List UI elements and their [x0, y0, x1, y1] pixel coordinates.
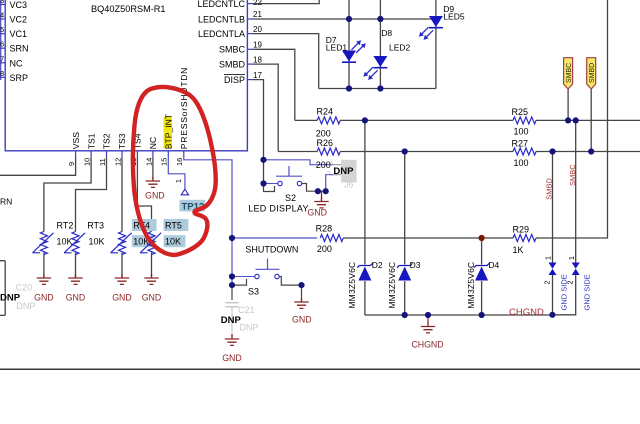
- TVS diode pair GND SIDE 2: [568, 256, 592, 311]
- ground GND at pin14: [145, 177, 165, 201]
- svg-text:SMBD: SMBD: [544, 178, 553, 200]
- power flag SMBD: [587, 58, 596, 89]
- capacitor C21 DNP grayed: [221, 285, 259, 334]
- LED D8: [363, 28, 410, 80]
- svg-text:200: 200: [316, 128, 331, 138]
- svg-text:GND: GND: [222, 353, 242, 363]
- svg-text:NC: NC: [148, 137, 158, 149]
- ground GND under RT3: [66, 274, 86, 303]
- pin 11 TS2: [98, 133, 112, 166]
- power flag SMBC: [564, 58, 573, 89]
- pin 7 NC: [0, 54, 23, 68]
- svg-text:DNP: DNP: [16, 301, 35, 311]
- wire pin12 TS3 to RT4: [121, 157, 123, 231]
- resistor R29: [513, 225, 537, 256]
- svg-text:J6: J6: [344, 180, 354, 190]
- wire CHGND rail: [365, 314, 553, 316]
- svg-text:RT3: RT3: [87, 221, 104, 231]
- connector J6 DNP: [327, 160, 357, 190]
- pin 12 TS3: [113, 133, 127, 166]
- resistor R26: [316, 138, 340, 170]
- frame border bottom: [0, 368, 640, 370]
- pin 5 VC1: [0, 25, 27, 39]
- pin 20 LEDCNTLA: [198, 25, 262, 39]
- svg-text:SMBD: SMBD: [219, 60, 246, 70]
- svg-text:SMBC: SMBC: [568, 164, 577, 186]
- wire D4 vertical: [481, 238, 483, 315]
- svg-text:GND SIDE: GND SIDE: [583, 274, 592, 310]
- wire RT4 to GND: [121, 253, 123, 278]
- wire LED cathode rail: [319, 88, 436, 90]
- J6 pin stubs: [333, 165, 341, 175]
- pin 21 LEDCNTLB: [198, 10, 262, 24]
- pin 6 SRN: [0, 40, 29, 54]
- svg-text:200: 200: [316, 160, 331, 170]
- pin 3 VC3: [0, 0, 27, 10]
- wire RT3 to GND: [75, 253, 77, 278]
- wire LED5 vertical: [435, 0, 437, 89]
- wire pin13 TS4 to RT5: [137, 157, 151, 231]
- svg-text:LED5: LED5: [443, 11, 465, 21]
- wire S2 right to J6 pin2: [326, 175, 333, 192]
- svg-text:1: 1: [176, 179, 183, 183]
- svg-text:20: 20: [253, 25, 262, 34]
- svg-text:LEDCNTLC: LEDCNTLC: [197, 0, 245, 9]
- ground GND under S2: [307, 191, 328, 217]
- svg-text:GND: GND: [142, 293, 162, 303]
- svg-text:VC2: VC2: [10, 15, 28, 25]
- svg-text:R27: R27: [512, 139, 529, 149]
- svg-text:VC1: VC1: [10, 29, 28, 39]
- svg-text:RT2: RT2: [57, 221, 74, 231]
- svg-text:2: 2: [327, 170, 331, 177]
- svg-text:18: 18: [253, 55, 262, 64]
- pin 9 VSS: [67, 132, 81, 166]
- svg-text:1: 1: [546, 256, 553, 260]
- svg-text:SHUTDOWN: SHUTDOWN: [245, 244, 298, 254]
- svg-text:S2: S2: [285, 193, 296, 203]
- svg-text:PRESSorSHUTDN: PRESSorSHUTDN: [179, 67, 189, 149]
- svg-text:CHGND: CHGND: [509, 307, 544, 318]
- resistor R25: [512, 107, 537, 136]
- wire RT5 to GND: [151, 253, 153, 278]
- svg-text:DNP: DNP: [221, 315, 242, 326]
- wire S2 dots link: [318, 190, 326, 192]
- thermistor RT5: [140, 219, 188, 255]
- svg-text:LED2: LED2: [389, 42, 411, 52]
- svg-text:200: 200: [317, 244, 332, 254]
- svg-text:2: 2: [544, 281, 551, 285]
- svg-text:R25: R25: [512, 107, 529, 117]
- wire pin21 LED anode row: [254, 18, 436, 20]
- wire LED1 vertical: [348, 0, 350, 89]
- IC U1 body BQ40Z50RSM-R1: [5, 0, 247, 151]
- svg-text:VSS: VSS: [71, 132, 81, 149]
- svg-text:GND: GND: [307, 208, 327, 218]
- svg-text:GND: GND: [34, 293, 54, 303]
- svg-text:C21: C21: [238, 305, 255, 315]
- resistor R28: [316, 224, 344, 255]
- pin 14 NC: [144, 137, 158, 166]
- wire LED2 vertical: [379, 0, 381, 89]
- zener diode D2: [347, 260, 383, 309]
- wire R28 left lead: [232, 237, 317, 239]
- svg-text:NC: NC: [10, 58, 23, 68]
- wire D3 vertical: [404, 152, 406, 316]
- svg-text:3: 3: [0, 0, 4, 5]
- svg-text:SMBD: SMBD: [589, 63, 596, 83]
- svg-text:SMBC: SMBC: [219, 45, 246, 55]
- svg-text:D2: D2: [372, 260, 383, 270]
- svg-text:2: 2: [568, 281, 575, 285]
- svg-text:11: 11: [98, 158, 107, 166]
- wire RT2 to GND: [43, 253, 45, 278]
- svg-text:RN: RN: [0, 197, 12, 207]
- wire pin20 down to LED rail: [254, 34, 319, 89]
- svg-text:CHGND: CHGND: [411, 339, 443, 349]
- svg-text:GND: GND: [292, 314, 312, 324]
- wire SMBC branch down to GND SIDE diode: [552, 120, 575, 314]
- test point TP12: [176, 179, 205, 212]
- svg-text:SMBC: SMBC: [566, 63, 573, 83]
- pin 22 LEDCNTLC: [197, 0, 262, 9]
- wire battery stack bus at crop edge: [0, 0, 2, 80]
- pin 17 DISP: [224, 71, 262, 85]
- wire R26 row: [278, 151, 640, 153]
- svg-text:TS1: TS1: [86, 133, 96, 149]
- TVS diode pair GND SIDE 1: [544, 256, 568, 311]
- pin 16 PRESSorSHUTDN: [175, 67, 189, 166]
- LED D7: [326, 35, 366, 62]
- svg-text:GND SIDE: GND SIDE: [560, 274, 569, 310]
- ground GND under RT4: [112, 274, 132, 303]
- svg-text:100: 100: [514, 126, 529, 136]
- wire D2 vertical: [364, 120, 366, 315]
- ground GND under RT2: [34, 274, 54, 303]
- wire pin17 DISP to S2: [254, 80, 264, 184]
- svg-text:MM3Z5V6C: MM3Z5V6C: [466, 262, 476, 309]
- svg-text:D4: D4: [488, 260, 499, 270]
- svg-text:D3: D3: [410, 260, 421, 270]
- svg-text:7: 7: [0, 54, 4, 63]
- svg-text:21: 21: [253, 10, 262, 19]
- svg-text:19: 19: [253, 41, 262, 50]
- svg-text:BQ40Z50RSM-R1: BQ40Z50RSM-R1: [91, 4, 166, 14]
- pin 4 VC2: [0, 11, 27, 25]
- annotation red circle: [133, 87, 216, 255]
- junction node dots: [229, 16, 594, 318]
- wire R24 row: [295, 119, 640, 121]
- svg-text:10: 10: [83, 158, 92, 166]
- switch S3 SHUTDOWN: [232, 244, 302, 296]
- wire pin9 VSS to left: [0, 157, 76, 175]
- thermistor RT2: [33, 221, 74, 255]
- svg-text:R29: R29: [513, 225, 530, 235]
- svg-text:R28: R28: [316, 224, 333, 234]
- svg-text:GND: GND: [112, 293, 132, 303]
- svg-text:D8: D8: [381, 28, 392, 38]
- svg-text:8: 8: [0, 69, 4, 78]
- svg-text:5: 5: [0, 25, 4, 34]
- svg-text:14: 14: [144, 158, 153, 166]
- svg-text:17: 17: [253, 71, 262, 80]
- svg-text:1K: 1K: [513, 245, 524, 255]
- pin 10 TS1: [83, 133, 97, 166]
- svg-text:10K: 10K: [57, 237, 73, 247]
- node dot dark red R28/D4: [479, 235, 485, 241]
- svg-text:16: 16: [175, 158, 184, 166]
- ground GND under RT5: [142, 274, 162, 303]
- wire SMBC flag stem: [567, 89, 569, 120]
- wire pin10 TS1 to RT2: [44, 157, 91, 231]
- svg-text:RT5: RT5: [165, 221, 182, 231]
- svg-text:LED DISPLAY: LED DISPLAY: [248, 204, 309, 214]
- svg-text:LEDCNTLA: LEDCNTLA: [198, 29, 245, 39]
- wire SMBD branch down to GND SIDE diode: [552, 152, 554, 315]
- svg-text:DISP: DISP: [224, 75, 245, 85]
- connector C20 partial at left edge: [0, 261, 35, 316]
- pin 15 BTP_INT highlight: [160, 113, 174, 166]
- svg-text:LED1: LED1: [326, 42, 348, 52]
- wire pin14 to GND: [152, 157, 154, 179]
- wire pin15 to TP12: [168, 157, 185, 189]
- svg-text:10K: 10K: [89, 237, 105, 247]
- zener diode D4: [466, 260, 500, 309]
- svg-text:SRN: SRN: [10, 44, 29, 54]
- svg-text:DNP: DNP: [240, 322, 259, 332]
- svg-text:SRP: SRP: [10, 73, 29, 83]
- svg-text:C20: C20: [16, 283, 33, 293]
- wire right rail to R29: [536, 0, 608, 238]
- svg-text:LEDCNTLB: LEDCNTLB: [198, 14, 245, 24]
- svg-text:TS2: TS2: [102, 133, 112, 149]
- svg-text:MM3Z5V6C: MM3Z5V6C: [347, 262, 357, 309]
- wire pin18 SMBD to R26: [254, 64, 279, 151]
- ground CHGND symbol: [411, 315, 443, 349]
- svg-text:9: 9: [67, 162, 76, 166]
- svg-text:4: 4: [0, 11, 4, 20]
- wire SMBD flag stem: [590, 89, 592, 152]
- wire R28-R29 row: [343, 237, 513, 239]
- LED D9: [419, 4, 465, 40]
- svg-text:15: 15: [160, 158, 169, 166]
- svg-text:100: 100: [514, 158, 529, 168]
- pin 19 SMBC: [219, 41, 262, 55]
- ground GND right of S3: [292, 285, 312, 324]
- switch S2 LED DISPLAY: [248, 166, 318, 214]
- svg-text:GND: GND: [145, 191, 165, 201]
- resistor R27: [512, 139, 537, 169]
- pin 8 SRP: [0, 69, 28, 83]
- svg-text:TS3: TS3: [117, 133, 127, 149]
- svg-text:GND: GND: [66, 293, 86, 303]
- resistor R24: [316, 107, 340, 139]
- svg-text:BTP_INT: BTP_INT: [164, 113, 174, 149]
- pin 13 TS4: [129, 133, 143, 166]
- wire pin11 TS2 to RT3: [76, 157, 107, 231]
- svg-text:DNP: DNP: [333, 166, 354, 177]
- svg-text:12: 12: [113, 158, 122, 166]
- svg-text:MM3Z5V6C: MM3Z5V6C: [387, 262, 397, 309]
- wire S2 to J6 pin1: [264, 160, 334, 165]
- svg-text:R26: R26: [317, 138, 334, 148]
- wire pin22 to top: [254, 0, 320, 4]
- ground GND under C21: [222, 334, 242, 363]
- svg-text:1: 1: [569, 256, 576, 260]
- svg-text:VC3: VC3: [10, 0, 28, 10]
- zener diode D3: [387, 260, 421, 309]
- wire pin19 SMBC to R24: [254, 49, 295, 120]
- svg-text:R24: R24: [317, 107, 334, 117]
- svg-text:10K: 10K: [165, 237, 181, 247]
- thermistor RT4: [111, 219, 157, 255]
- pin 18 SMBD: [219, 55, 262, 69]
- thermistor RT3: [64, 221, 104, 255]
- svg-text:S3: S3: [248, 287, 259, 297]
- wire pin16 SHUTDOWN net: [184, 157, 232, 285]
- svg-text:6: 6: [0, 40, 4, 49]
